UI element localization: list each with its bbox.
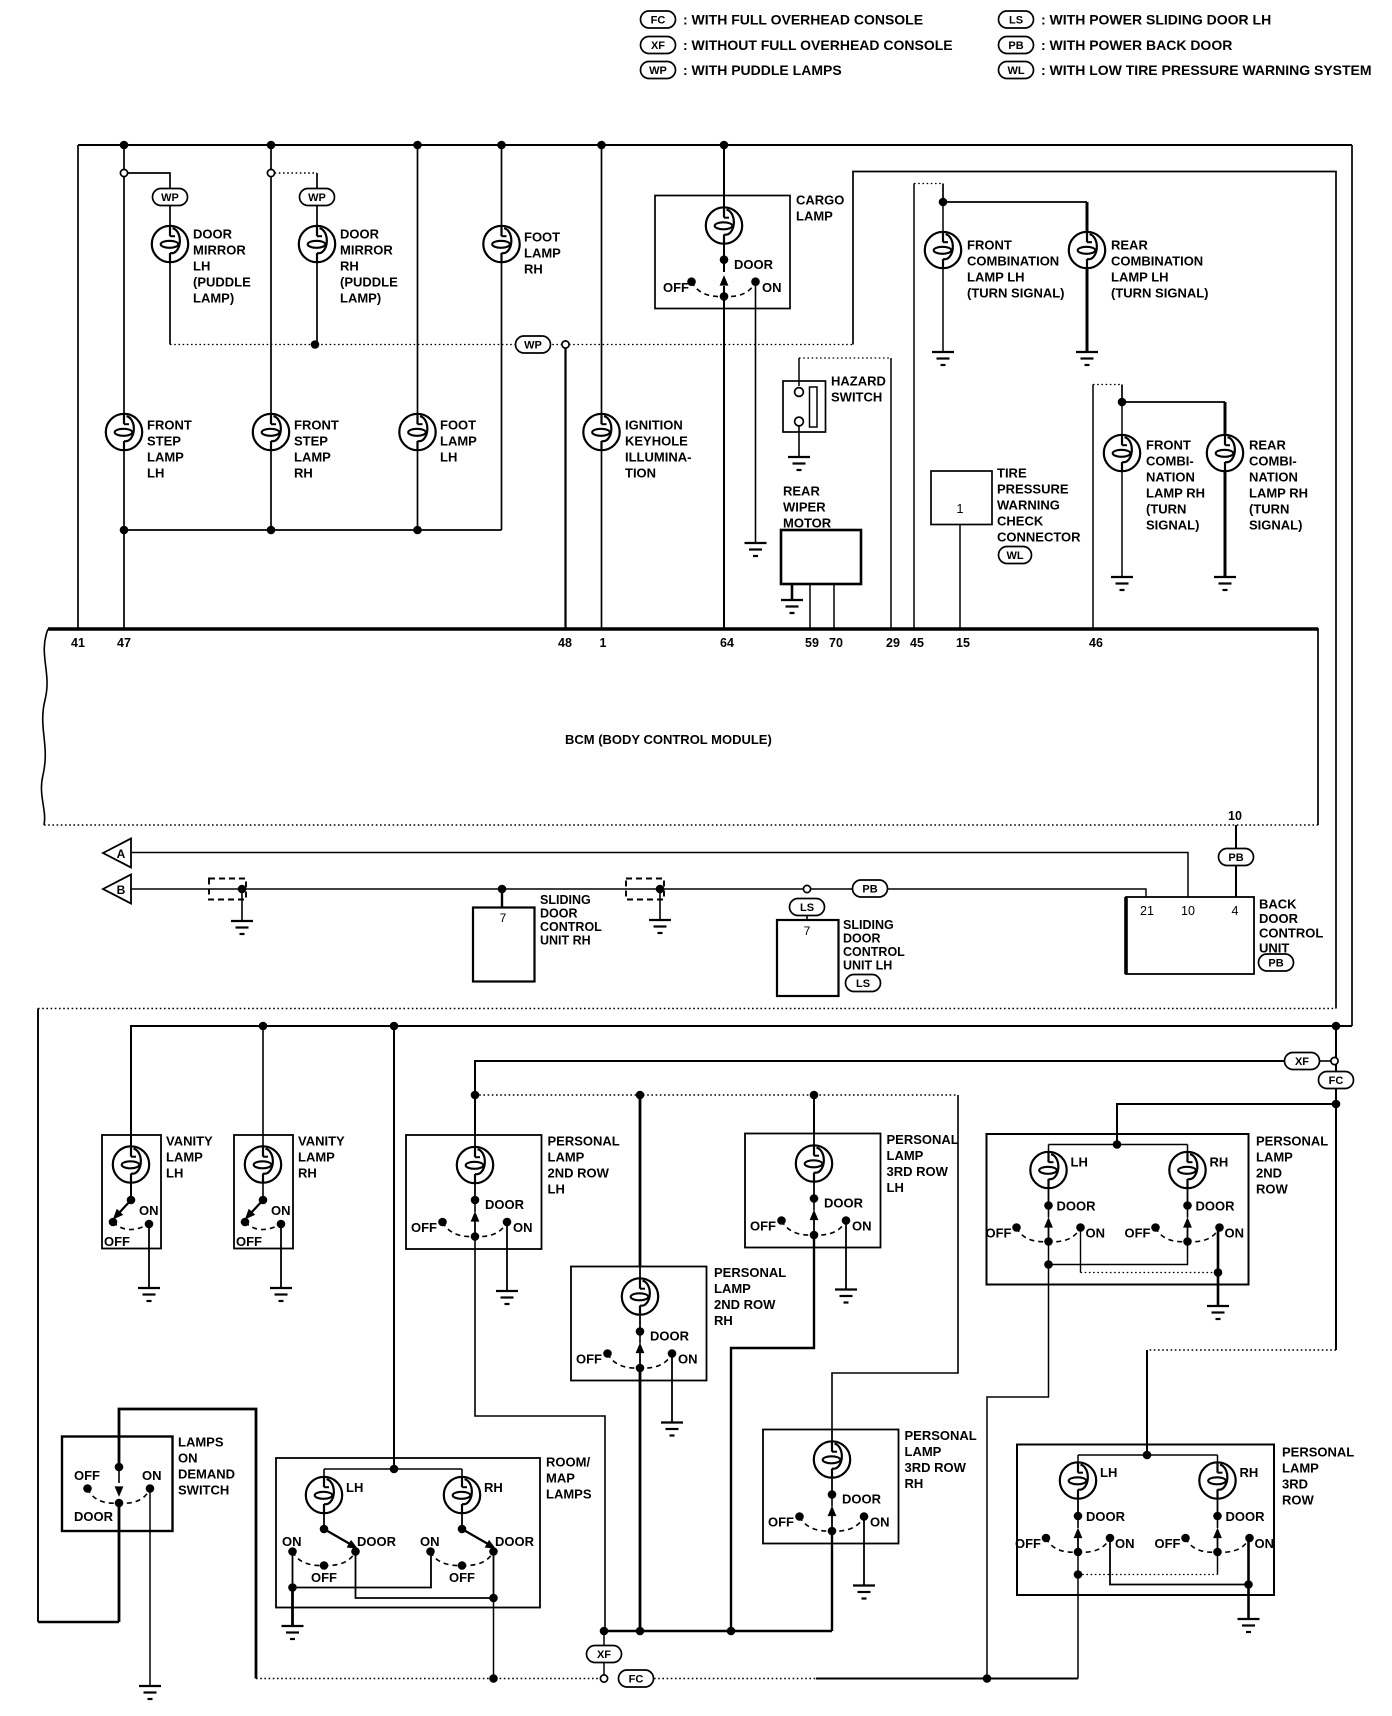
pin circle hazard bottom	[795, 417, 804, 426]
wire rear comb LH to ground thick	[1086, 268, 1089, 352]
wire to sliding door control unit RH	[501, 889, 503, 907]
svg-text:21: 21	[1140, 904, 1154, 918]
svg-text:OFF: OFF	[986, 1226, 1012, 1241]
svg-text:A: A	[117, 847, 126, 861]
wire branch to rear comb LH	[943, 201, 1087, 203]
contact dot vanity LH pivot	[127, 1196, 136, 1205]
wire shield 1 to ground	[241, 889, 243, 921]
legend connector oval WP	[641, 62, 676, 79]
connector circle LS tap	[803, 885, 810, 892]
switch arm PERSONAL LAMP 2ND ROW RH	[1187, 1206, 1189, 1218]
wire 3rd row LH feed	[813, 1095, 815, 1134]
lamp REAR COMBINATION LAMP RH (TURN SIGNAL)	[1207, 435, 1243, 471]
junction dot bus x724	[720, 141, 729, 150]
wire dotted branch to door mirror RH	[275, 172, 317, 174]
contact dot vanity LH OFF	[109, 1218, 118, 1227]
wire room map ON to ground	[291, 1588, 294, 1627]
svg-text:FC: FC	[1329, 1075, 1344, 1087]
svg-text:LS: LS	[800, 902, 814, 914]
contact dot PERSONAL LAMP 3RD ROW LH DOOR	[1074, 1512, 1083, 1521]
switch arm PERSONAL LAMP 3RD ROW LH	[813, 1199, 815, 1211]
ground front combination lamp LH	[932, 352, 954, 365]
wire branch to rear comb RH	[1122, 401, 1225, 403]
contact dot PERSONAL LAMP 2ND ROW LH DOOR	[471, 1196, 480, 1205]
wire room map RH lamp to pivot	[461, 1513, 463, 1529]
switch arc PERSONAL LAMP 2ND ROW LH	[443, 1222, 508, 1237]
junction dot y1631 x640	[636, 1627, 645, 1636]
svg-text:: WITH POWER SLIDING DOOR LH: : WITH POWER SLIDING DOOR LH	[1041, 12, 1271, 28]
contact dot room map LH DOOR	[351, 1547, 360, 1556]
contact dot PERSONAL LAMP 2ND ROW LH OFF	[438, 1218, 447, 1227]
box PERSONAL LAMP 3RD ROW	[1017, 1445, 1274, 1596]
pin circle hazard top	[795, 388, 804, 397]
wire cargo common / BCM pin 64 column	[723, 286, 725, 629]
contact dot PERSONAL LAMP 2ND ROW RH DOOR	[636, 1327, 645, 1336]
wire 2nd row RH common down	[639, 1368, 642, 1631]
wire rear wiper ground stub	[791, 584, 794, 600]
wire BCM pin 46 column	[1092, 385, 1094, 630]
switch arm vanity LH	[119, 1200, 131, 1213]
junction dot bus x501	[497, 141, 506, 150]
junction dot 3rd row dual feed	[1143, 1451, 1152, 1460]
svg-text:OFF: OFF	[576, 1352, 602, 1367]
junction dot 2nd row LH feed	[471, 1091, 480, 1100]
wire BCM pin 45 column	[913, 184, 915, 630]
svg-text:: WITH PUDDLE LAMPS: : WITH PUDDLE LAMPS	[683, 62, 842, 78]
switch arm vanity RH	[251, 1200, 263, 1213]
svg-text:ON: ON	[1255, 1536, 1275, 1551]
svg-text:4: 4	[1232, 904, 1239, 918]
wire room map LH lamp to pivot	[323, 1513, 325, 1529]
switch arm room map LH	[324, 1529, 350, 1544]
contact dot PERSONAL LAMP 2ND ROW LH ON	[1076, 1223, 1085, 1232]
BCM bottom dotted edge	[44, 824, 1318, 826]
wire down to junction front comb LH	[942, 184, 944, 203]
contact dot PERSONAL LAMP 3RD ROW RH common	[1213, 1548, 1222, 1557]
wire PERSONAL LAMP 3RD ROW RH ON to ground	[863, 1517, 865, 1586]
wire PERSONAL LAMP 3RD ROW RH lamp to DOOR contact	[831, 1478, 833, 1495]
junction dot room map door on bus	[489, 1674, 498, 1683]
wire front comb RH to ground	[1121, 471, 1123, 577]
lamp FRONT STEP LAMP RH	[253, 414, 289, 450]
switch arc room map RH	[431, 1552, 494, 1566]
box REAR WIPER MOTOR	[781, 530, 861, 584]
wire lower frame left edge	[37, 1009, 39, 1623]
wire 2nd row dual common tie	[1049, 1242, 1188, 1265]
contact dot vanity RH OFF	[241, 1218, 250, 1227]
contact dot room map RH DOOR	[489, 1547, 498, 1556]
svg-text:XF: XF	[597, 1649, 611, 1661]
junction dot comb RH feed	[1118, 398, 1127, 407]
contact dot vanity RH ON	[277, 1220, 286, 1229]
contact dot PERSONAL LAMP 3RD ROW LH common	[810, 1231, 819, 1240]
svg-text:15: 15	[956, 636, 970, 650]
wire WP option dashed line	[170, 344, 853, 346]
svg-text:OFF: OFF	[104, 1234, 130, 1249]
wire 3rd row dual common out	[1077, 1575, 1079, 1679]
junction dot personal 2nd row feed	[1332, 1100, 1341, 1109]
BCM torn left edge	[41, 629, 48, 825]
contact dot PERSONAL LAMP 3RD ROW LH ON	[1106, 1534, 1115, 1543]
svg-text:DOOR: DOOR	[824, 1196, 864, 1211]
svg-text:LS: LS	[1009, 14, 1023, 26]
contact dot PERSONAL LAMP 3RD ROW LH DOOR	[810, 1194, 819, 1203]
svg-text:RH: RH	[484, 1480, 503, 1495]
svg-text:ON: ON	[678, 1352, 698, 1367]
svg-text:29: 29	[886, 636, 900, 650]
svg-text:ON: ON	[762, 280, 782, 295]
svg-text:WL: WL	[1006, 550, 1023, 562]
wire door mirror LH to WP dashed line	[169, 262, 171, 345]
junction dot room map DOOR net	[489, 1594, 498, 1603]
svg-text:LH: LH	[346, 1480, 363, 1495]
junction dot bus x417	[413, 141, 422, 150]
switch arc PERSONAL LAMP 2ND ROW RH	[608, 1354, 673, 1369]
lamp PERSONAL LAMP 3RD ROW LH	[1077, 1455, 1079, 1463]
switch arm room map RH	[462, 1529, 488, 1544]
box SLIDING DOOR CONTROL UNIT RH	[473, 908, 535, 982]
ground rear combination lamp RH	[1214, 577, 1236, 590]
svg-text:DOOR: DOOR	[495, 1534, 535, 1549]
contact dot PERSONAL LAMP 3RD ROW RH ON	[860, 1512, 869, 1521]
wire down to junction front comb RH	[1121, 385, 1123, 403]
lamp VANITY LAMP LH	[113, 1146, 149, 1182]
svg-text:ON: ON	[870, 1515, 890, 1530]
lamp VANITY LAMP RH	[245, 1146, 281, 1182]
svg-text:WP: WP	[161, 192, 179, 204]
wire dotted jog to 3rd row feed	[1147, 1349, 1336, 1351]
wire BCM pin 48 drop	[564, 348, 566, 629]
contact dot PERSONAL LAMP 3RD ROW LH OFF	[1042, 1534, 1051, 1543]
switch arm cargo	[720, 275, 729, 286]
wire room map ON net	[293, 1552, 432, 1588]
legend connector oval PB	[999, 37, 1034, 54]
svg-text:OFF: OFF	[74, 1468, 100, 1483]
switch arc PERSONAL LAMP 3RD ROW LH	[1046, 1538, 1110, 1552]
contact dot PERSONAL LAMP 2ND ROW LH common	[1044, 1237, 1053, 1246]
box CARGO LAMP	[655, 196, 790, 309]
svg-text:ON: ON	[139, 1203, 159, 1218]
box PERSONAL LAMP 2ND ROW	[987, 1134, 1249, 1285]
svg-text:DOOR: DOOR	[734, 257, 774, 272]
wire x604 drop to bus	[603, 1631, 605, 1675]
box ROOM/MAP LAMPS	[276, 1458, 540, 1608]
svg-text:FC: FC	[629, 1673, 644, 1685]
box PERSONAL LAMP 2ND ROW LH	[406, 1135, 542, 1249]
svg-text:WL: WL	[1007, 65, 1024, 77]
svg-text:DOOR: DOOR	[1226, 1509, 1266, 1524]
junction dot bottom bus x124	[120, 526, 129, 535]
ground rear wiper motor	[781, 600, 803, 613]
switch arc PERSONAL LAMP 2ND ROW RH	[1156, 1228, 1220, 1242]
svg-text:ON: ON	[1225, 1226, 1245, 1241]
connector oval FC right	[1319, 1072, 1354, 1089]
ground hazard switch	[788, 457, 810, 470]
svg-text:64: 64	[720, 636, 734, 650]
wire PERSONAL LAMP 2ND ROW LH lamp to DOOR	[1048, 1188, 1050, 1206]
contact dot PERSONAL LAMP 3RD ROW LH ON	[842, 1216, 851, 1225]
contact dot lamps-on-demand OFF	[83, 1484, 92, 1493]
box LAMPS ON DEMAND SWITCH	[62, 1437, 173, 1532]
contact dot vanity RH pivot	[259, 1196, 268, 1205]
svg-text:OFF: OFF	[768, 1515, 794, 1530]
wire 2nd row LH feed	[474, 1095, 476, 1135]
lamp PERSONAL LAMP 3RD ROW RH	[1217, 1455, 1219, 1463]
connector oval PB on pin10 wire	[1219, 849, 1254, 866]
wire LS to sliding door control unit LH	[806, 916, 808, 921]
ground PERSONAL LAMP 3RD ROW LH	[835, 1290, 857, 1303]
svg-text:OFF: OFF	[1015, 1536, 1041, 1551]
connector oval XF bottom	[587, 1646, 622, 1663]
contact dot PERSONAL LAMP 3RD ROW RH common	[828, 1527, 837, 1536]
contact dot PERSONAL LAMP 2ND ROW RH ON	[668, 1349, 677, 1358]
lamp PERSONAL LAMP 2ND ROW RH	[1187, 1145, 1189, 1153]
box SLIDING DOOR CONTROL UNIT LH	[777, 920, 839, 996]
lamp PERSONAL LAMP 2ND ROW LH	[474, 1135, 476, 1147]
wire rear comb RH to ground thick	[1224, 471, 1227, 577]
box PERSONAL LAMP 3RD ROW RH	[763, 1430, 899, 1544]
contact dot PERSONAL LAMP 2ND ROW RH ON	[1215, 1223, 1224, 1232]
svg-text:7: 7	[804, 924, 811, 938]
contact dot room map RH pivot	[458, 1525, 467, 1534]
ground shield 2	[649, 920, 671, 933]
connector oval XF right	[1285, 1053, 1320, 1070]
svg-text:ON: ON	[282, 1534, 302, 1549]
connector oval PB on net B	[853, 880, 888, 897]
connector oval LS above sliding door LH	[790, 899, 825, 916]
contact dot cargo DOOR	[720, 255, 729, 264]
contact dot PERSONAL LAMP 2ND ROW LH OFF	[1012, 1223, 1021, 1232]
lamp REAR COMBINATION LAMP LH (TURN SIGNAL)	[1069, 232, 1105, 268]
svg-text:1: 1	[957, 502, 964, 516]
connector oval WP door mirror RH	[300, 189, 335, 206]
wire 2nd row dual ON tie	[1080, 1228, 1082, 1273]
ground PERSONAL LAMP 3RD ROW RH	[853, 1586, 875, 1599]
ground cargo lamp switch	[745, 543, 767, 556]
box BCM (BODY CONTROL MODULE)	[48, 629, 1318, 825]
wire lower frame dotted top	[38, 1008, 1336, 1010]
switch arc PERSONAL LAMP 2ND ROW LH	[1017, 1228, 1081, 1242]
svg-text:XF: XF	[1295, 1056, 1309, 1068]
wire 2nd row dual RH ON to ground	[1217, 1228, 1220, 1307]
lamp IGNITION KEYHOLE ILLUMINATION	[583, 414, 619, 450]
svg-text:: WITHOUT FULL OVERHEAD CONSOL: : WITHOUT FULL OVERHEAD CONSOLE	[683, 37, 953, 53]
contact dot PERSONAL LAMP 2ND ROW RH common	[1183, 1237, 1192, 1246]
wire front comb LH to ground	[942, 268, 944, 352]
contact dot PERSONAL LAMP 3RD ROW RH OFF	[1181, 1534, 1190, 1543]
junction dot lower right branch	[1332, 1022, 1341, 1031]
wire vanity RH ON to ground	[280, 1224, 282, 1288]
lamp DOOR MIRROR RH (PUDDLE LAMP)	[299, 226, 335, 262]
wire net A	[131, 853, 1188, 898]
switch arc vanity RH	[245, 1222, 281, 1230]
svg-text:47: 47	[117, 636, 131, 650]
switch arc PERSONAL LAMP 3RD ROW RH	[800, 1517, 865, 1532]
wire rear comb RH drop thick	[1224, 402, 1227, 435]
lamp PERSONAL LAMP 3RD ROW LH	[813, 1134, 815, 1146]
wire lower frame bottom jog	[38, 1621, 119, 1624]
svg-text:OFF: OFF	[750, 1219, 776, 1234]
wire WP to door mirror LH lamp	[169, 206, 171, 228]
box PERSONAL LAMP 3RD ROW LH	[745, 1134, 881, 1248]
svg-text:ON: ON	[271, 1203, 291, 1218]
svg-text:59: 59	[805, 636, 819, 650]
contact dot PERSONAL LAMP 3RD ROW RH DOOR	[828, 1490, 837, 1499]
wire right power drop to lower section	[1351, 145, 1353, 1026]
junction dot 2nd row dual common	[1044, 1260, 1053, 1269]
junction dot bottom bus x417	[413, 526, 422, 535]
junction dot bottom bus x271	[267, 526, 276, 535]
switch arc PERSONAL LAMP 3RD ROW LH	[782, 1221, 847, 1236]
svg-text:DOOR: DOOR	[650, 1329, 690, 1344]
junction dot 2nd row dual feed	[1113, 1140, 1122, 1149]
svg-text:DOOR: DOOR	[1057, 1199, 1097, 1214]
switch arm lamps-on-demand	[118, 1467, 120, 1483]
wire lamps-on-demand common down	[118, 1503, 121, 1622]
svg-text:LS: LS	[856, 978, 870, 990]
ground shield 1	[231, 921, 253, 934]
switch arm PERSONAL LAMP 3RD ROW RH	[1217, 1516, 1219, 1528]
wire vanity LH feed	[130, 1026, 132, 1200]
svg-text:HAZARDSWITCH: HAZARDSWITCH	[831, 374, 886, 405]
lamp PERSONAL LAMP 3RD ROW RH	[831, 1430, 833, 1442]
ground PERSONAL LAMP 2ND ROW LH	[496, 1291, 518, 1304]
svg-text:DOOR: DOOR	[357, 1534, 397, 1549]
svg-text:DOOR: DOOR	[1086, 1509, 1126, 1524]
lamp FRONT COMBINATION LAMP RH (TURN SIGNAL)	[1121, 402, 1123, 435]
ground vanity lamp LH	[138, 1288, 160, 1301]
junction dot bus x124	[120, 141, 129, 150]
svg-text:PB: PB	[862, 883, 877, 895]
wire column x417	[417, 145, 419, 530]
contact dot lamps-on-demand common	[115, 1499, 124, 1508]
ground front combination lamp RH	[1111, 577, 1133, 590]
lamp ROOM/MAP LH	[323, 1469, 325, 1479]
junction dot shield 1	[238, 885, 247, 894]
lamp FOOT LAMP RH	[483, 226, 519, 262]
wire PERSONAL LAMP 3RD ROW inner top	[1078, 1454, 1218, 1456]
junction dot 3rd row dual ON	[1244, 1580, 1253, 1589]
connector circle XF junction	[1331, 1057, 1338, 1064]
svg-text:XF: XF	[651, 40, 665, 52]
junction dot room map ON net	[288, 1583, 297, 1592]
junction dot door mirror RH on WP line	[311, 340, 320, 349]
svg-text:OFF: OFF	[236, 1234, 262, 1249]
svg-text:41: 41	[71, 636, 85, 650]
contact dot PERSONAL LAMP 3RD ROW RH DOOR	[1213, 1512, 1222, 1521]
wire personal lamp 2nd row feed	[1117, 1104, 1336, 1145]
legend connector oval XF	[641, 37, 676, 54]
box VANITY LAMP RH	[234, 1135, 293, 1249]
junction dot room map feed	[390, 1022, 399, 1031]
switch arc lamps-on-demand	[88, 1489, 151, 1504]
switch arc room map LH	[293, 1552, 356, 1566]
wire tire pressure to BCM pin 15	[959, 525, 961, 630]
svg-text:: WITH FULL OVERHEAD CONSOLE: : WITH FULL OVERHEAD CONSOLE	[683, 12, 923, 28]
wire dotted jog pin45	[914, 183, 943, 185]
contact dot PERSONAL LAMP 2ND ROW LH common	[471, 1232, 480, 1241]
svg-text:LH: LH	[1100, 1465, 1117, 1480]
wire bottom collector bus	[124, 529, 502, 531]
lamp FRONT STEP LAMP LH	[106, 414, 142, 450]
connector oval WP door mirror LH	[153, 189, 188, 206]
contact dot cargo OFF	[687, 277, 696, 286]
box BACK DOOR CONTROL UNIT	[1126, 897, 1254, 974]
ground room map lamps	[282, 1626, 304, 1639]
switch arc vanity LH	[113, 1222, 149, 1230]
wire 2nd row RH feed	[639, 1095, 642, 1267]
wire lamps on demand feed route	[119, 1409, 256, 1679]
junction dot y1631 x731	[727, 1627, 736, 1636]
svg-text:FC: FC	[651, 14, 666, 26]
wire option line to XF	[475, 1061, 1285, 1095]
wire shield 2 to ground	[659, 889, 661, 920]
junction dot bus x271	[267, 141, 276, 150]
wire 2nd row dual common out	[987, 1265, 1049, 1679]
switch arm PERSONAL LAMP 2ND ROW RH	[639, 1332, 641, 1344]
wire dotted option bus	[475, 1094, 958, 1096]
contact dot cargo common	[720, 292, 729, 301]
connector triangle B	[103, 875, 131, 904]
svg-text:ON: ON	[852, 1219, 872, 1234]
wire 3rd row dual feed drop	[1146, 1350, 1148, 1455]
connector oval WP on dashed line	[516, 336, 551, 353]
wire 2nd row LH common route	[475, 1237, 605, 1632]
wire PERSONAL LAMP 3RD ROW LH lamp to DOOR contact	[813, 1182, 815, 1199]
contact dot PERSONAL LAMP 2ND ROW RH common	[636, 1364, 645, 1373]
wire bottom door bus dotted left	[256, 1678, 600, 1680]
svg-text:RH: RH	[1210, 1155, 1229, 1170]
wire lamps-on-demand ON to ground	[149, 1489, 151, 1687]
wire 3rd row dual common tie	[1077, 1552, 1079, 1575]
svg-text:ON: ON	[142, 1468, 162, 1483]
junction dot bus x602	[597, 141, 606, 150]
connector triangle A	[103, 839, 131, 868]
svg-text:WP: WP	[649, 65, 667, 77]
wire column x271	[270, 145, 272, 530]
svg-text:BCM (BODY CONTROL MODULE): BCM (BODY CONTROL MODULE)	[565, 732, 772, 747]
wire vanity RH feed	[262, 1026, 264, 1200]
svg-text:ON: ON	[513, 1220, 533, 1235]
contact dot room map LH pivot	[320, 1525, 329, 1534]
switch arm PERSONAL LAMP 2ND ROW LH	[1048, 1206, 1050, 1218]
ground 2nd row dual	[1207, 1306, 1229, 1319]
box PERSONAL LAMP 2ND ROW RH	[571, 1267, 707, 1381]
wire column x501	[501, 145, 503, 530]
wire room map inner top	[324, 1468, 462, 1470]
svg-text:OFF: OFF	[1155, 1536, 1181, 1551]
svg-text:DOOR: DOOR	[842, 1492, 882, 1507]
ground lamps-on-demand	[139, 1686, 161, 1699]
connector oval LS below sliding door LH	[846, 975, 881, 992]
lamp ROOM/MAP RH	[461, 1469, 463, 1479]
contact dot room map LH ON	[288, 1547, 297, 1556]
wire rear wiper BCM pin 70	[833, 584, 835, 629]
svg-text:46: 46	[1089, 636, 1103, 650]
svg-text:ON: ON	[1115, 1536, 1135, 1551]
connector circle bottom bus	[600, 1675, 607, 1682]
contact dot PERSONAL LAMP 2ND ROW RH OFF	[603, 1349, 612, 1358]
svg-text:OFF: OFF	[311, 1570, 337, 1585]
svg-text:PB: PB	[1228, 852, 1243, 864]
contact dot lamps-on-demand top	[115, 1463, 124, 1472]
svg-text:7: 7	[500, 911, 507, 925]
switch arc PERSONAL LAMP 3RD ROW RH	[1186, 1538, 1250, 1552]
box VANITY LAMP LH	[102, 1135, 161, 1249]
wire 3rd row dual ON tie	[1110, 1538, 1249, 1585]
wire 3rd row dual RH ON to ground	[1247, 1538, 1250, 1619]
svg-text:ON: ON	[420, 1534, 440, 1549]
